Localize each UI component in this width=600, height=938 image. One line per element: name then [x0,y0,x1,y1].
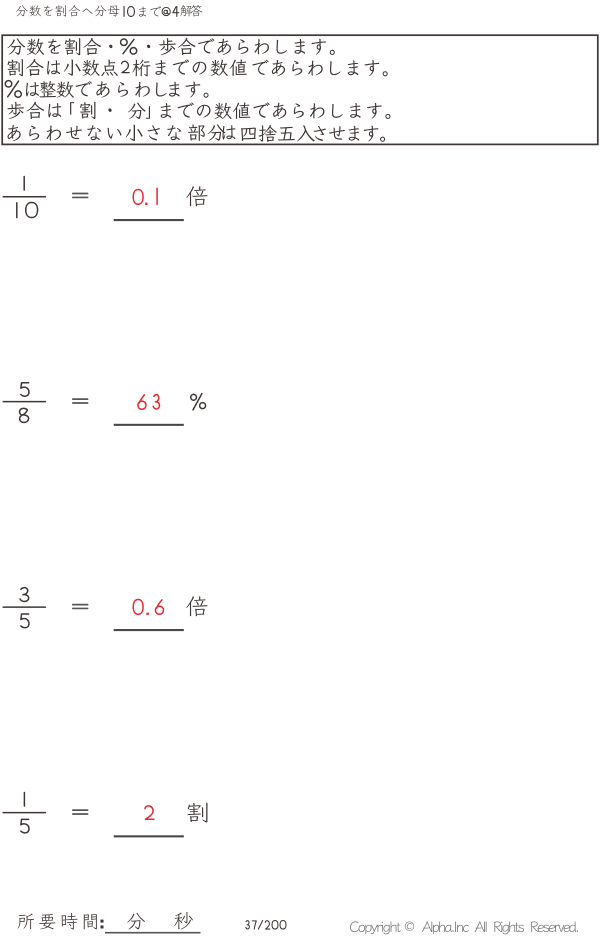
problem 2 unit % [191,394,206,410]
problem 2 answer underline [114,424,184,426]
problem 1 fraction 1/10 [23,177,25,191]
problem 3 answer 0.6 (red) [133,599,143,614]
problem 2 equals sign [73,398,88,400]
problem 4 fraction 1/5 [23,792,25,806]
instruction line 3 [26,81,209,98]
instruction line 1 [8,38,335,55]
problem 4 unit 割 [187,802,207,822]
title text 分数を割合へ分母10まで@4解答 [16,5,202,17]
footer 分 [127,913,145,930]
instruction box border [2,35,598,144]
problem 2 answer 63 (red) [138,395,146,409]
footer 秒 [174,912,193,929]
problem 1 answer 0.1 (red) [133,189,143,204]
problem 3 equals sign [73,604,88,606]
problem 1 unit 倍 [186,186,207,206]
instruction line 4 [7,102,390,119]
page number 37/200 [246,921,250,929]
title @ symbol [162,7,170,15]
problem 3 unit 倍 [186,596,207,616]
problem 4 equals sign [73,809,88,811]
problem 3 fraction 3/5 [20,588,29,602]
problem 1 answer underline [114,219,184,221]
title digits 10 [123,7,125,17]
problem 3 answer underline [114,629,184,631]
problem 1 equals sign [73,193,88,195]
instruction digit 2 [122,61,130,72]
footer label 所要時間: [17,913,103,930]
copyright line [350,921,578,934]
instruction line 2 [8,59,388,76]
title digit 4 [173,7,179,17]
footer 分 秒 blank underline [105,932,201,934]
problem 4 answer underline [114,835,184,837]
instruction line 5 [8,124,386,142]
problem 4 answer 2 (red) [145,806,154,819]
problem 2 fraction 5/8 [21,383,29,396]
